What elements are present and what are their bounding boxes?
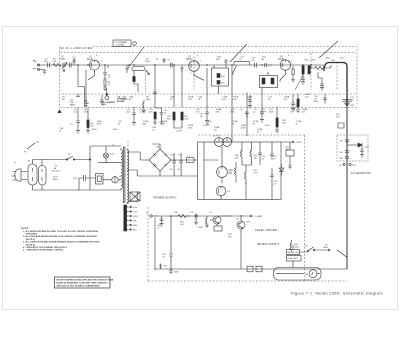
shield dash line V2 <box>193 53 195 91</box>
bus component S2b <box>256 266 262 272</box>
meter cal box1 <box>287 250 300 255</box>
switch diagonal stage3 <box>232 66 237 76</box>
svg-text:AF R-C AMPLIFIER: AF R-C AMPLIFIER <box>60 46 93 50</box>
horizontal resistor R21 <box>311 65 331 70</box>
svg-text:TO PREAMP: TO PREAMP <box>114 41 127 44</box>
svg-text:500K: 500K <box>294 246 299 248</box>
V2 cathode drop <box>194 68 207 80</box>
svg-text:1M: 1M <box>129 99 132 101</box>
grid resistor R9 <box>180 65 184 72</box>
svg-text:470K: 470K <box>92 129 97 131</box>
terminals J3 <box>343 163 345 165</box>
power input plug P1 <box>12 169 28 181</box>
svg-text:1M: 1M <box>91 126 94 128</box>
B+ vertical bus <box>346 106 348 269</box>
svg-text:V6 5Y3: V6 5Y3 <box>213 136 221 138</box>
secondary winding <box>127 149 129 204</box>
svg-text:60Hz: 60Hz <box>53 179 58 181</box>
svg-text:600V: 600V <box>70 104 75 106</box>
svg-text:6.3V: 6.3V <box>133 207 138 209</box>
svg-text:BLK: BLK <box>133 230 137 232</box>
capacitor C3 <box>76 95 80 97</box>
limiter dashed left edge <box>147 207 149 281</box>
labels C7 <box>163 60 171 62</box>
svg-text:NO: NO <box>36 142 40 144</box>
svg-text:1M: 1M <box>62 99 65 101</box>
capacitor C9 <box>155 107 163 119</box>
resistor R11 <box>173 112 175 120</box>
J4 connector <box>323 245 329 250</box>
tube V6 dual <box>213 136 231 147</box>
svg-text:2.2K: 2.2K <box>282 122 287 124</box>
svg-text:220K: 220K <box>145 61 150 63</box>
svg-text:GRN: GRN <box>133 216 138 218</box>
resistor R33 <box>159 264 162 270</box>
resistor R25 <box>240 142 242 163</box>
label V1 <box>87 57 93 62</box>
meter cal box2 <box>287 256 302 262</box>
svg-text:+250V: +250V <box>296 142 303 144</box>
ground stage1 <box>103 86 107 91</box>
svg-text:6.8K: 6.8K <box>188 99 193 101</box>
boxed label TO PREAMP PWR <box>113 40 144 68</box>
shield dash line output <box>311 53 337 90</box>
svg-text:1M: 1M <box>261 59 264 61</box>
below-line stage3 labels <box>230 104 300 124</box>
svg-text:600Ω: 600Ω <box>323 247 329 249</box>
svg-text:RED: RED <box>133 225 138 227</box>
cap C32 <box>195 214 197 219</box>
tube V4 <box>216 186 230 198</box>
wires R11 R12 down <box>174 120 182 128</box>
capacitor C6 <box>153 92 157 94</box>
svg-text:10K: 10K <box>180 224 184 226</box>
NOTES block <box>21 228 100 252</box>
AF R-C AMPLIFIER label <box>60 46 93 50</box>
svg-text:POWER: POWER <box>116 45 125 47</box>
svg-text:C32A: C32A <box>198 226 204 229</box>
svg-text:METER OUTPUT: METER OUTPUT <box>257 242 279 246</box>
input terminal <box>150 215 152 217</box>
tube V5 <box>217 167 233 180</box>
svg-text:6.3V: 6.3V <box>133 212 138 214</box>
capacitor C14 <box>248 95 252 108</box>
svg-text:47K: 47K <box>216 59 220 61</box>
capacitor C5 <box>76 121 80 129</box>
svg-text:400V: 400V <box>314 101 319 103</box>
svg-text:220K: 220K <box>241 127 246 129</box>
tube V2 <box>189 61 200 74</box>
V2 plate load drop <box>206 80 208 112</box>
cap C18 vertical <box>323 94 327 104</box>
label V3 <box>278 57 285 62</box>
tube V1 <box>90 60 100 72</box>
regulator box <box>198 142 282 200</box>
potentiometer R2 GAIN <box>62 63 67 72</box>
diode CR2 <box>345 99 350 106</box>
svg-text:SPECIFIED.: SPECIFIED. <box>26 234 38 236</box>
leader P1 <box>27 143 35 149</box>
resistor R27 <box>242 162 252 184</box>
svg-text:METER CAL: METER CAL <box>288 251 300 254</box>
ground C31 <box>169 269 173 274</box>
core <box>123 147 125 204</box>
extra texture labels band2 <box>112 94 311 133</box>
stage3 network box B <box>260 65 278 88</box>
cap C15 <box>245 112 249 118</box>
svg-text:12AX7: 12AX7 <box>186 58 194 61</box>
limiter wires <box>171 216 241 269</box>
amplifier dashed enclosure outer <box>60 47 358 282</box>
labels C12 <box>251 58 256 63</box>
cap C30 <box>160 216 164 226</box>
svg-text:1. ALL RESISTORS ARE IN OHMS,: 1. ALL RESISTORS ARE IN OHMS, 1/2 W ±5%,… <box>23 230 99 233</box>
svg-text:22K: 22K <box>253 157 257 159</box>
svg-text:4. ⎕ INDICATES 115V NOMINAL LI: 4. ⎕ INDICATES 115V NOMINAL LINE SUPPLY. <box>23 246 68 249</box>
RF DETECTOR label <box>351 171 371 175</box>
box under Q1 <box>214 226 222 231</box>
cap C24 <box>172 157 176 167</box>
boxed note <box>55 277 114 288</box>
resistor R1 <box>53 63 61 66</box>
relay box <box>130 192 140 201</box>
svg-text:TO AMP: TO AMP <box>254 215 263 218</box>
resistor R26 <box>250 142 252 163</box>
svg-text:CR1: CR1 <box>156 147 161 149</box>
cap on bus 3 <box>345 157 349 159</box>
svg-text:12K: 12K <box>302 111 306 113</box>
power wires to transformer <box>33 146 122 190</box>
detector tap wire <box>347 144 358 146</box>
corner marker <box>58 110 61 113</box>
shield ground stage3 <box>224 59 228 65</box>
diagonal leader 2 <box>230 44 247 62</box>
fuse holder F1 oval <box>28 164 37 185</box>
resistor R30 <box>174 214 190 217</box>
resistor right of V3 <box>291 66 295 82</box>
stage2 input capsule <box>132 67 145 71</box>
svg-text:DISC: DISC <box>230 111 235 113</box>
capacitor C12 <box>255 63 257 68</box>
svg-text:6AU6: 6AU6 <box>87 58 93 61</box>
extra label texture row mid <box>62 96 308 130</box>
labels limiter <box>157 212 240 230</box>
heavy plate wire to B+ <box>324 63 347 107</box>
svg-text:68K: 68K <box>143 123 147 125</box>
wire box2 down <box>292 240 294 268</box>
svg-text:47K: 47K <box>53 61 57 63</box>
junction row labels stage1 <box>73 109 89 114</box>
grounds stage2 <box>153 119 164 125</box>
svg-text:2. ALL CAPS AND RESISTORS ARE: 2. ALL CAPS AND RESISTORS ARE ±10%, UNLE… <box>23 235 98 238</box>
component C17 <box>291 94 295 111</box>
transformer T1 <box>112 145 140 204</box>
cap C36 det <box>360 150 364 157</box>
label cluster R4 <box>85 100 90 108</box>
transistor Q2 <box>237 221 245 229</box>
svg-text:4.7K: 4.7K <box>253 172 258 174</box>
grid element <box>265 63 273 67</box>
resistor R10 <box>154 112 156 119</box>
svg-text:1W: 1W <box>85 105 88 107</box>
bypass arc stage3 <box>234 61 250 65</box>
reg bottom bus <box>198 182 247 199</box>
wire drops stage2 <box>125 65 182 107</box>
capacitor C4 <box>103 73 107 80</box>
svg-text:LEVEL ADJ: LEVEL ADJ <box>288 257 298 260</box>
limiter dashed right edge <box>304 135 306 281</box>
svg-text:MADE AS REQUIRED. A BETTER THA: MADE AS REQUIRED. A BETTER THAN CAPACITY <box>57 282 109 285</box>
link to bus <box>337 250 347 257</box>
cap C35 on bus <box>345 140 349 142</box>
labels below stage1 <box>59 123 97 132</box>
resistor R23 box <box>286 150 294 156</box>
ground R6 <box>86 128 90 134</box>
transformer tap bar <box>124 205 127 231</box>
pot wiper arrow <box>146 70 149 75</box>
label C10 <box>200 114 205 119</box>
label V2 <box>186 57 194 62</box>
wire <box>78 65 108 107</box>
junction dots main wire <box>77 64 348 270</box>
svg-text:EXCEPT WHERE NOTED APPLIES FOR: EXCEPT WHERE NOTED APPLIES FOR CHECKS TO… <box>57 279 114 282</box>
labels reg <box>235 147 291 186</box>
svg-text:3. ALL CAPACITORS ARE IN MICRO: 3. ALL CAPACITORS ARE IN MICROFARADS UNL… <box>23 241 100 244</box>
labels stage2 bottom <box>126 109 201 133</box>
svg-text:GAIN: GAIN <box>60 58 66 61</box>
main signal wire <box>38 64 324 66</box>
ground C10 <box>205 119 209 124</box>
resistor R19 <box>302 66 304 74</box>
input jack J1 <box>33 60 40 71</box>
svg-text:47K: 47K <box>228 236 232 238</box>
resistor R6 <box>87 120 89 128</box>
wires power <box>33 160 67 191</box>
capacitor C7 <box>170 63 172 68</box>
METER OUTPUT label <box>257 242 279 246</box>
svg-text:6.8K: 6.8K <box>233 99 238 101</box>
svg-text:10K: 10K <box>235 157 239 159</box>
LEVEL LIMITER label <box>255 228 278 232</box>
amplifier dashed enclosure inner bottom <box>62 93 356 95</box>
ground above wire shield <box>162 58 166 62</box>
capacitor C26 <box>79 175 96 190</box>
svg-text:REPLACE IS NOT ALWAYS GUARANTE: REPLACE IS NOT ALWAYS GUARANTEED. <box>57 285 101 288</box>
svg-text:-105V: -105V <box>112 129 118 131</box>
svg-text:SLO-BLO: SLO-BLO <box>52 170 61 172</box>
ground C16 <box>260 118 264 123</box>
ground input <box>39 70 47 74</box>
transformer shield dash <box>127 141 129 204</box>
reg internal wires <box>204 142 222 200</box>
capacitor C1 <box>48 63 50 68</box>
resistor R5 <box>104 79 106 86</box>
shield dash capsule <box>145 71 147 92</box>
capacitor C4A <box>100 95 103 106</box>
shield ground stage1 <box>72 59 76 65</box>
reg top wire extension <box>281 141 294 143</box>
caps to ground <box>174 167 181 176</box>
detector dashed box <box>337 135 368 161</box>
choke L1 <box>187 158 195 163</box>
junction dots power <box>66 159 67 160</box>
inner pins <box>33 168 43 181</box>
capacitor C18a <box>301 78 305 84</box>
resistor bar stage2 <box>133 77 135 82</box>
toggle switch S3 <box>300 246 323 253</box>
amplifier dashed enclosure inner top <box>60 52 356 54</box>
svg-text:10K: 10K <box>331 60 335 62</box>
diode reg <box>279 164 284 176</box>
svg-text:470K: 470K <box>97 123 102 125</box>
cap on bus 2 <box>345 151 349 153</box>
wire V3 plate to loop <box>318 72 322 82</box>
svg-text:47K: 47K <box>336 116 340 118</box>
cap C27 <box>270 142 274 160</box>
svg-text:(NOTE 3).: (NOTE 3). <box>26 239 36 241</box>
transistor Q1 <box>210 216 221 224</box>
resistor R18 <box>276 118 278 127</box>
meter M1 <box>305 270 317 278</box>
svg-text:150K: 150K <box>148 111 153 113</box>
svg-text:POWER SUPPLY: POWER SUPPLY <box>153 196 178 200</box>
label cluster C2 <box>73 58 77 63</box>
pilot lamp DS1 <box>98 146 121 163</box>
resistor R28 <box>234 162 236 183</box>
svg-text:100K: 100K <box>146 99 151 101</box>
cap C31 <box>169 254 173 269</box>
capacitor C8 <box>132 107 136 121</box>
cap C25 <box>179 157 183 167</box>
cap C29 <box>258 142 262 165</box>
diode CR3 <box>358 143 362 150</box>
svg-text:R.F. DETECTOR: R.F. DETECTOR <box>351 171 371 175</box>
svg-text:Figure 7-1. Model 236X, Schem: Figure 7-1. Model 236X, Schematic Diagra… <box>291 292 383 296</box>
resistor R31 <box>205 216 209 228</box>
leader line <box>128 47 144 68</box>
svg-text:GND: GND <box>174 272 179 274</box>
stage3 network box A <box>212 65 229 94</box>
bridge rectifier CR1 <box>149 147 171 172</box>
capacitor C16 <box>260 107 264 118</box>
ground C5 <box>76 129 80 134</box>
svg-text:100K: 100K <box>269 111 274 113</box>
ground C8 <box>132 121 136 126</box>
jack J5 <box>112 177 118 183</box>
interlock box S4 <box>96 174 104 185</box>
resistor R56 <box>290 240 292 252</box>
test point TP1 <box>100 88 128 106</box>
switch S1 <box>67 156 73 160</box>
bus tick cap <box>342 100 352 102</box>
tube V3 <box>280 60 290 72</box>
interlock oval <box>39 166 47 186</box>
svg-text:-105V: -105V <box>264 125 270 127</box>
bus component S2a <box>247 266 253 272</box>
svg-text:(NOTE 4).: (NOTE 4). <box>26 243 36 246</box>
capacitor C10 <box>205 112 209 119</box>
wire drops stage3 <box>232 65 262 142</box>
svg-text:68K: 68K <box>167 118 171 120</box>
primary winding <box>121 148 123 190</box>
POWER SUPPLY label <box>153 196 178 200</box>
capacitor C2 <box>69 63 71 68</box>
svg-text:NOTES:: NOTES: <box>21 228 29 230</box>
V3 cathode diagonal <box>280 72 286 82</box>
cap C28 <box>270 168 274 200</box>
diagonal crease <box>295 73 304 90</box>
labels stage1 <box>70 75 111 107</box>
bridge wires <box>137 144 198 176</box>
labels output <box>305 58 356 119</box>
power supply dashed top <box>198 134 305 136</box>
svg-text:5. ○ INDICATES FRONT PANEL CON: 5. ○ INDICATES FRONT PANEL CONTROL. <box>23 249 65 252</box>
svg-text:12K: 12K <box>162 123 166 125</box>
svg-text:LEVEL LIMITER: LEVEL LIMITER <box>255 228 278 232</box>
svg-text:1.5M: 1.5M <box>184 118 189 120</box>
diagonal leader 3 <box>319 41 338 58</box>
bottom dashed border <box>148 280 347 282</box>
labels power <box>14 154 115 181</box>
svg-text:270K: 270K <box>188 127 193 129</box>
resistor R20A <box>297 99 299 107</box>
resistor R20 <box>308 66 310 74</box>
below-line components stage1 <box>78 108 88 122</box>
resistor R9 <box>142 100 146 113</box>
tap arrows <box>127 206 132 231</box>
limiter extra labels <box>180 222 251 239</box>
svg-text:+150V: +150V <box>176 131 183 133</box>
svg-text:33K: 33K <box>216 111 220 113</box>
cap C20 <box>320 82 324 90</box>
meter panel rounded <box>274 268 322 281</box>
resistor R12 <box>181 112 183 120</box>
limiter wire <box>155 215 252 217</box>
component on bus <box>338 123 344 128</box>
extra label texture row upper <box>44 55 345 75</box>
svg-text:6AQ5: 6AQ5 <box>278 58 285 61</box>
svg-text:4.7K: 4.7K <box>305 96 310 98</box>
bottom bus wire <box>155 268 347 270</box>
